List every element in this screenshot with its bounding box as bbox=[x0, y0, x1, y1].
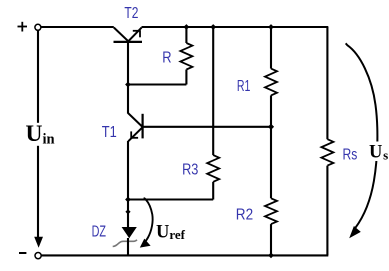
terminal circle bottom bbox=[35, 253, 41, 259]
svg-text:T1: T1 bbox=[102, 124, 117, 141]
svg-text:R: R bbox=[162, 49, 171, 66]
svg-text:DZ: DZ bbox=[92, 224, 107, 241]
wire T2 base down to T1 collector bbox=[127, 42, 129, 114]
transistor T1 base bar bbox=[142, 114, 144, 139]
wire R3 bottom to emitter line bbox=[128, 198, 213, 200]
wire bottom rail bbox=[42, 254, 329, 256]
svg-text:T2: T2 bbox=[124, 5, 138, 22]
wire T1 emitter down to DZ bbox=[127, 141, 129, 228]
resistor R bottom lead bbox=[185, 70, 187, 85]
transistor T2 emitter lead bbox=[128, 28, 142, 42]
voltage arrow U_ref head bbox=[140, 239, 151, 248]
wire R2 bottom lead bbox=[270, 224, 272, 255]
transistor T2 collector lead bbox=[114, 28, 128, 42]
junction dot R1 bottom / T1 base wire bbox=[268, 124, 274, 130]
voltage arrow U_ref arc bbox=[144, 198, 153, 243]
wire middle vertical from top rail bbox=[212, 27, 214, 155]
wire DZ to bottom rail bbox=[127, 238, 129, 255]
resistor R2 bbox=[265, 198, 277, 224]
junction dot middle vertical top bbox=[210, 24, 216, 30]
wire top rail left segment bbox=[41, 26, 114, 28]
junction dot R1 top bbox=[268, 24, 274, 30]
label U_s bbox=[368, 142, 389, 162]
junction dot R2 bottom rail bbox=[268, 253, 274, 259]
resistor R top lead bbox=[185, 27, 187, 43]
resistor R bbox=[180, 43, 192, 70]
transistor T2 base bar bbox=[114, 41, 143, 43]
junction dot R3 wire / emitter line bbox=[125, 197, 131, 203]
wire R3 bottom lead bbox=[212, 182, 214, 200]
zener diode DZ triangle bbox=[122, 227, 137, 238]
wire right vertical (Rs branch upper lead) bbox=[326, 27, 328, 139]
resistor R3 bbox=[207, 155, 219, 182]
transistor T1 emitter arrow barbs bbox=[131, 131, 139, 138]
voltage arrow U_in line bbox=[37, 31, 39, 238]
junction dot below on emitter line bbox=[125, 209, 130, 214]
wire R1 top lead bbox=[270, 27, 272, 69]
junction dot R bottom / base line bbox=[125, 82, 131, 88]
transistor T2 emitter arrow barbs bbox=[133, 30, 140, 37]
wire Rs lower lead bbox=[326, 166, 328, 256]
svg-text:R1: R1 bbox=[237, 78, 251, 95]
wire R1 bottom lead bbox=[270, 95, 272, 126]
voltage arrow U_in head bbox=[34, 237, 43, 248]
plus terminal sign bbox=[18, 22, 28, 32]
voltage arrow U_s head bbox=[349, 226, 361, 238]
svg-text:Rs: Rs bbox=[343, 146, 358, 163]
label U_in bbox=[24, 123, 54, 146]
wire R2 top lead bbox=[270, 127, 272, 199]
svg-text:R2: R2 bbox=[236, 207, 253, 224]
zener diode DZ cathode bar bbox=[113, 240, 137, 247]
transistor T1 emitter lead bbox=[128, 127, 142, 141]
transistor T1 collector lead bbox=[128, 113, 143, 127]
junction dot R top bbox=[184, 24, 190, 30]
minus terminal sign bbox=[19, 252, 26, 254]
terminal circle top bbox=[35, 24, 41, 30]
resistor R1 bbox=[265, 69, 277, 96]
svg-text:R3: R3 bbox=[182, 162, 198, 179]
voltage arrow U_s arc bbox=[346, 43, 378, 227]
wire T1 base to R1/R2 node bbox=[143, 126, 271, 128]
resistor Rs bbox=[321, 139, 333, 165]
wire R bottom to T2 base line bbox=[128, 83, 186, 85]
wire top rail right segment bbox=[142, 26, 329, 28]
